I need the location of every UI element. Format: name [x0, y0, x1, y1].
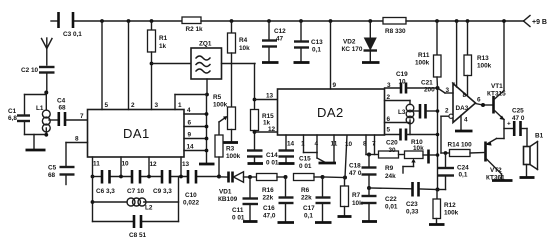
wire main vertical net: [436, 86, 440, 190]
svg-text:R13: R13: [477, 55, 489, 62]
ground DA1 right pins: [199, 163, 215, 166]
node C23/R12/C24 junction: [436, 188, 440, 192]
svg-text:200: 200: [424, 87, 435, 94]
zener VD2: [342, 19, 378, 61]
svg-text:10: 10: [399, 79, 407, 86]
ground C22: [362, 220, 377, 223]
svg-text:0,1: 0,1: [312, 47, 321, 54]
svg-text:3: 3: [387, 82, 391, 89]
svg-text:12: 12: [150, 161, 158, 168]
svg-text:30: 30: [389, 147, 397, 154]
svg-text:VT2: VT2: [490, 167, 502, 174]
wire R10 wiper: [403, 159, 416, 174]
capacitor C16: [263, 177, 294, 222]
capacitor C18: [349, 155, 377, 189]
wire DA2 pin 2 to L3: [385, 94, 411, 105]
svg-text:+9 В: +9 В: [532, 19, 547, 26]
capacitor C2: [21, 67, 55, 93]
svg-text:VT1: VT1: [491, 83, 503, 90]
svg-text:10: 10: [345, 141, 353, 148]
resistor R12: [433, 190, 459, 224]
wire DA1 pin 2: [127, 19, 135, 109]
capacitor C17: [303, 177, 331, 222]
svg-text:0,1: 0,1: [304, 213, 313, 220]
wire top rail middle section: [201, 20, 383, 22]
node R1/ZQ1 junction: [150, 62, 154, 66]
wire DA2 pin 3: [385, 82, 400, 89]
wire pins 7/8 tie: [366, 153, 379, 157]
wire ZQ1 ground pin: [205, 79, 209, 96]
svg-text:1: 1: [178, 102, 182, 109]
svg-text:11: 11: [331, 141, 338, 148]
svg-text:C11: C11: [232, 207, 244, 214]
wire DA2 pin 9: [329, 19, 337, 89]
ground C15: [279, 162, 295, 165]
resistor R8: [383, 18, 406, 36]
svg-text:ZQ1: ZQ1: [199, 41, 212, 48]
svg-text:C3 0,1: C3 0,1: [63, 31, 82, 38]
svg-text:DA1: DA1: [123, 126, 150, 141]
svg-text:22k: 22k: [301, 195, 312, 202]
ground C11: [243, 220, 258, 223]
capacitor C3: [51, 12, 82, 38]
inductor L2: [91, 198, 179, 212]
svg-text:КТ315: КТ315: [487, 91, 506, 98]
svg-text:100k: 100k: [415, 60, 430, 67]
svg-text:100k: 100k: [213, 102, 228, 109]
resistor R2: [182, 17, 203, 33]
node antenna/tank junction: [44, 91, 48, 95]
capacitor C12: [262, 19, 286, 61]
svg-text:7: 7: [80, 113, 84, 120]
node R3/VD1/C10 junction: [217, 175, 221, 179]
node R16/R6/C16 junction: [284, 175, 288, 179]
svg-text:1: 1: [301, 141, 305, 148]
wire DA2 pin 6: [385, 116, 411, 123]
svg-text:+: +: [507, 121, 511, 128]
capacitor C20: [386, 129, 438, 155]
capacitor C9: [153, 170, 172, 195]
wire top rail right section: [406, 20, 523, 22]
svg-text:13: 13: [266, 93, 274, 100]
svg-text:КС 170: КС 170: [342, 46, 363, 53]
capacitor C23: [369, 182, 438, 216]
svg-text:10k: 10k: [413, 145, 424, 152]
svg-text:100k: 100k: [444, 210, 459, 217]
wire line A below DA1: [91, 175, 219, 179]
svg-text:47 0: 47 0: [349, 170, 362, 177]
svg-text:0 01: 0 01: [299, 163, 312, 170]
speaker B1: [524, 129, 544, 177]
svg-text:R3: R3: [226, 146, 235, 153]
svg-text:C5: C5: [48, 165, 57, 172]
svg-text:C12: C12: [274, 28, 286, 35]
svg-text:68: 68: [48, 172, 56, 179]
svg-text:68: 68: [59, 105, 67, 112]
resistor R1: [148, 19, 168, 109]
svg-text:8: 8: [75, 136, 79, 143]
svg-text:C16: C16: [263, 205, 275, 212]
wire DA3 pin 3 input: [438, 87, 454, 94]
svg-text:4: 4: [315, 141, 319, 148]
wire DA3 pin 2 input: [441, 108, 453, 154]
varicap VD1: [218, 172, 250, 204]
wire DA3 pin 7: [452, 19, 459, 89]
capacitor C25: [504, 108, 527, 137]
svg-text:4: 4: [187, 107, 191, 114]
svg-text:8: 8: [463, 92, 467, 99]
ground B1: [520, 176, 535, 179]
svg-text:R14 100: R14 100: [448, 142, 473, 149]
capacitor C4: [57, 98, 66, 127]
wire DA2 pin 13: [255, 93, 278, 100]
svg-text:11: 11: [93, 161, 100, 168]
svg-text:C17: C17: [303, 205, 315, 212]
capacitor C1: [8, 108, 30, 135]
svg-text:6: 6: [477, 97, 481, 104]
svg-text:L2: L2: [145, 205, 153, 212]
antenna WA1: [42, 38, 53, 65]
node R7/pin10 junction: [343, 176, 347, 180]
transistor VT1: [487, 19, 506, 138]
svg-text:C9 3,3: C9 3,3: [153, 188, 172, 195]
resistor R16: [250, 174, 286, 202]
resistor R11: [415, 19, 441, 88]
svg-text:VD2: VD2: [343, 39, 356, 46]
svg-text:13: 13: [182, 161, 190, 168]
potentiometer R5: [213, 64, 236, 142]
svg-text:6: 6: [188, 120, 192, 127]
op-amp DA2 box: [278, 89, 385, 135]
svg-text:7: 7: [372, 141, 376, 148]
capacitor C11: [232, 177, 258, 222]
svg-text:R1: R1: [159, 35, 168, 42]
filter ZQ1: [191, 41, 222, 80]
node DA2 pin 13 junction: [253, 98, 257, 102]
wire DA2 pins 1 and 4 bracket: [301, 135, 325, 162]
wire L1 tap to C4: [49, 119, 58, 121]
wire DA1 pin 1: [175, 95, 207, 110]
svg-text:R7: R7: [352, 192, 361, 199]
svg-text:9: 9: [188, 132, 192, 139]
svg-text:24k: 24k: [385, 173, 396, 180]
svg-text:47 0: 47 0: [512, 115, 525, 122]
ground C14: [248, 162, 264, 165]
capacitor C6: [96, 170, 115, 195]
resistor R6: [294, 174, 323, 202]
wire R5 wiper arrow: [219, 116, 228, 135]
wire DA1 pin 5: [100, 19, 108, 109]
svg-text:C7 10: C7 10: [127, 188, 144, 195]
wire DA1 right ground rail: [184, 95, 208, 164]
svg-text:8: 8: [363, 141, 367, 148]
ground VD2: [362, 61, 380, 64]
svg-text:C18: C18: [349, 163, 361, 170]
svg-text:L3: L3: [398, 109, 406, 116]
svg-text:C15: C15: [299, 156, 311, 163]
ground VT2: [492, 179, 513, 182]
svg-text:2: 2: [131, 102, 135, 109]
capacitor C10: [183, 170, 199, 207]
inductor L1: [36, 95, 50, 135]
ground C12: [262, 61, 279, 64]
capacitor C19: [396, 71, 438, 94]
capacitor C7: [127, 170, 144, 195]
ground C13: [294, 61, 310, 64]
svg-text:КВ109: КВ109: [218, 196, 238, 203]
svg-text:C20: C20: [386, 140, 398, 147]
wire audio line to R7: [323, 176, 346, 179]
ground R7: [338, 215, 352, 218]
svg-text:14: 14: [187, 144, 195, 151]
svg-text:C10: C10: [185, 192, 197, 199]
svg-text:1k: 1k: [159, 43, 167, 50]
wire DA1 pin 11: [93, 157, 101, 177]
svg-text:C23: C23: [406, 201, 418, 208]
svg-text:R9: R9: [385, 165, 394, 172]
svg-text:10k: 10k: [352, 200, 363, 207]
svg-text:C4: C4: [57, 98, 66, 105]
svg-text:R16: R16: [262, 187, 274, 194]
resistor R9: [379, 151, 405, 180]
svg-text:C19: C19: [396, 71, 408, 78]
svg-text:2: 2: [445, 108, 449, 115]
svg-text:C8 51: C8 51: [129, 232, 146, 239]
svg-text:3: 3: [155, 102, 159, 109]
svg-text:10k: 10k: [239, 45, 250, 52]
svg-text:5: 5: [105, 102, 109, 109]
svg-text:9: 9: [333, 82, 337, 89]
node R6/C17 junction: [321, 175, 325, 179]
resistor R14: [441, 142, 486, 157]
svg-text:12: 12: [268, 126, 276, 133]
resistor R4: [228, 19, 251, 63]
capacitor C8: [93, 215, 179, 239]
svg-text:C14: C14: [266, 152, 278, 159]
wire DA3 pin 4: [461, 116, 468, 131]
wire DA2 pin 11: [331, 135, 338, 162]
inductor L3: [398, 104, 414, 134]
svg-text:10: 10: [122, 161, 130, 168]
wire DA1 pin 12: [149, 157, 157, 177]
svg-text:R6: R6: [301, 187, 310, 194]
capacitor C14: [247, 151, 279, 167]
node C18/C22/C23 junction: [367, 186, 371, 190]
capacitor C5: [48, 165, 75, 185]
ground C16: [278, 221, 295, 224]
svg-text:7: 7: [452, 82, 456, 89]
svg-text:DA2: DA2: [317, 105, 344, 120]
svg-text:22k: 22k: [263, 195, 274, 202]
svg-text:DA3: DA3: [456, 105, 469, 112]
wire left rail below DA1: [92, 177, 94, 222]
resistor R7: [341, 178, 364, 216]
svg-text:14: 14: [287, 141, 295, 148]
svg-text:6: 6: [387, 116, 391, 123]
svg-text:0,33: 0,33: [406, 209, 419, 216]
svg-text:4: 4: [464, 117, 468, 124]
svg-text:47,0: 47,0: [263, 213, 276, 220]
capacitor C24: [438, 153, 470, 190]
wire DA1 pin 13: [181, 157, 190, 177]
ground C17: [315, 221, 332, 224]
svg-text:47: 47: [276, 36, 284, 43]
ground DA2 pins 4 and 11: [319, 162, 337, 165]
op-amp DA1 box: [88, 110, 185, 158]
wire DA2 pin 12: [253, 126, 278, 134]
capacitor C21: [412, 80, 438, 119]
svg-text:0,01: 0,01: [385, 204, 398, 211]
resistor R13: [464, 19, 492, 95]
wire ZQ1 output corner down to DA2 pin 13: [254, 64, 256, 110]
capacitor C22: [362, 188, 398, 221]
wire DA2 pin 10: [345, 135, 347, 178]
ground DA3 pin 4: [455, 130, 473, 133]
ground R12: [429, 223, 445, 226]
svg-text:0,1: 0,1: [459, 172, 468, 179]
svg-text:C1: C1: [8, 108, 17, 115]
wire DA3 output pin 6: [476, 97, 493, 108]
wire DA2 pin 8: [363, 135, 367, 155]
svg-text:0,022: 0,022: [183, 200, 199, 207]
capacitor C13: [294, 19, 323, 61]
wire ZQ1 input: [152, 63, 192, 65]
potentiometer R10: [405, 139, 438, 164]
ground R5: [223, 141, 238, 144]
svg-text:C24: C24: [457, 165, 469, 172]
svg-text:C22: C22: [385, 196, 397, 203]
wire DA1 pin 10: [121, 157, 129, 177]
svg-text:R5: R5: [213, 94, 222, 101]
wire DA2 pin 5: [385, 127, 400, 135]
svg-text:100k: 100k: [477, 63, 492, 70]
svg-text:5: 5: [387, 127, 391, 134]
svg-text:C21: C21: [421, 80, 433, 87]
svg-text:2: 2: [387, 94, 391, 101]
resistor R15: [251, 110, 275, 150]
svg-text:C2 10: C2 10: [21, 67, 38, 74]
svg-text:6,8: 6,8: [8, 115, 17, 122]
+9V supply terminal: [524, 16, 547, 27]
op-amp DA3: [453, 84, 476, 123]
wire top rail left section: [75, 20, 183, 22]
svg-text:C13: C13: [311, 39, 323, 46]
svg-text:0 01: 0 01: [232, 215, 245, 222]
svg-text:В1: В1: [535, 133, 544, 140]
svg-text:R8 330: R8 330: [385, 28, 406, 35]
wire DA1 pin 8: [66, 136, 88, 167]
wire DA2 pin 7: [372, 135, 376, 155]
svg-text:0 01: 0 01: [266, 160, 279, 167]
transistor VT2: [486, 139, 506, 182]
svg-text:R11: R11: [418, 52, 430, 59]
wire C4 to DA1 pin 7: [66, 113, 87, 120]
svg-text:R4: R4: [239, 37, 248, 44]
wire ZQ1 output: [222, 63, 256, 65]
svg-text:C25: C25: [512, 108, 524, 115]
wire right connector of L2/C8 lines: [178, 177, 180, 222]
node VD1/R16 junction: [248, 175, 252, 179]
svg-text:L1: L1: [36, 105, 44, 112]
wire tank bottom: [25, 133, 49, 137]
svg-text:VD1: VD1: [219, 189, 232, 196]
wire tank top: [25, 93, 47, 115]
svg-text:R2 1k: R2 1k: [186, 26, 203, 33]
resistor R3: [215, 135, 241, 177]
svg-text:R12: R12: [444, 202, 456, 209]
capacitor C15: [279, 135, 312, 170]
svg-text:100k: 100k: [226, 153, 241, 160]
ground tank: [26, 135, 46, 151]
svg-text:C6 3,3: C6 3,3: [96, 188, 115, 195]
svg-text:3: 3: [446, 87, 450, 94]
